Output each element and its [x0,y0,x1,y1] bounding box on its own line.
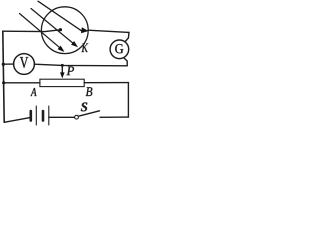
label K [82,44,89,53]
wire B branch [84,82,128,84]
slider arrow P shaft [61,65,63,74]
voltmeter V circle [14,54,35,75]
wire A branch [4,82,40,84]
label P [67,67,75,76]
node junction dot left wire at V branch [2,63,5,66]
light ray 1 arrowhead [58,46,65,52]
anode dot [59,28,62,31]
switch S lever [79,111,100,116]
phototube T (glass envelope) [41,7,88,54]
light ray 2 arrowhead [71,41,78,47]
light ray 3 arrowhead onto cathode [81,27,89,33]
label S [81,103,87,112]
wire left vertical [3,31,4,122]
light ray 3 [38,1,82,31]
wire bottom-left to battery [4,117,31,122]
battery GB cell1 long plate [35,106,37,125]
wire right vertical [127,83,129,118]
node P junction dot [61,64,64,67]
battery GB cell1 short plate [29,111,32,121]
switch S pivot circle [75,115,79,119]
light ray 2 [31,9,74,45]
slider arrow P head [60,72,65,78]
wire battery to switch [49,116,75,118]
wire V to P junction to G [34,64,127,66]
battery GB cell2 short plate [42,111,45,121]
wire G bottom elbow [124,58,127,66]
rheostat R body [40,79,84,86]
label G [115,44,123,53]
label V [20,57,28,68]
wire V branch [3,63,13,65]
wire switch to right corner [100,116,128,118]
galvanometer G circle [110,40,129,59]
light ray 1 [20,14,61,49]
wire cathode K to galvanometer [88,30,129,41]
label A [31,88,37,96]
battery GB cell2 long plate [48,106,50,125]
node junction dot left wire at A branch [2,81,5,84]
wire anode lead top-left [3,30,59,32]
label B [86,87,93,96]
